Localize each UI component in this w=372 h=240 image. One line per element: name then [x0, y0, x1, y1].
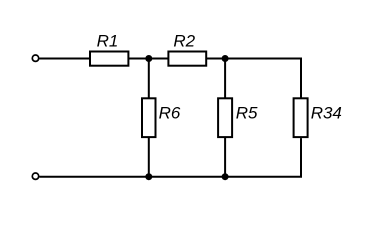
svg-text:R2: R2 — [173, 31, 195, 50]
svg-text:R34: R34 — [311, 103, 342, 122]
svg-text:R1: R1 — [97, 31, 119, 50]
svg-text:R5: R5 — [236, 103, 258, 122]
svg-text:R6: R6 — [159, 103, 181, 122]
